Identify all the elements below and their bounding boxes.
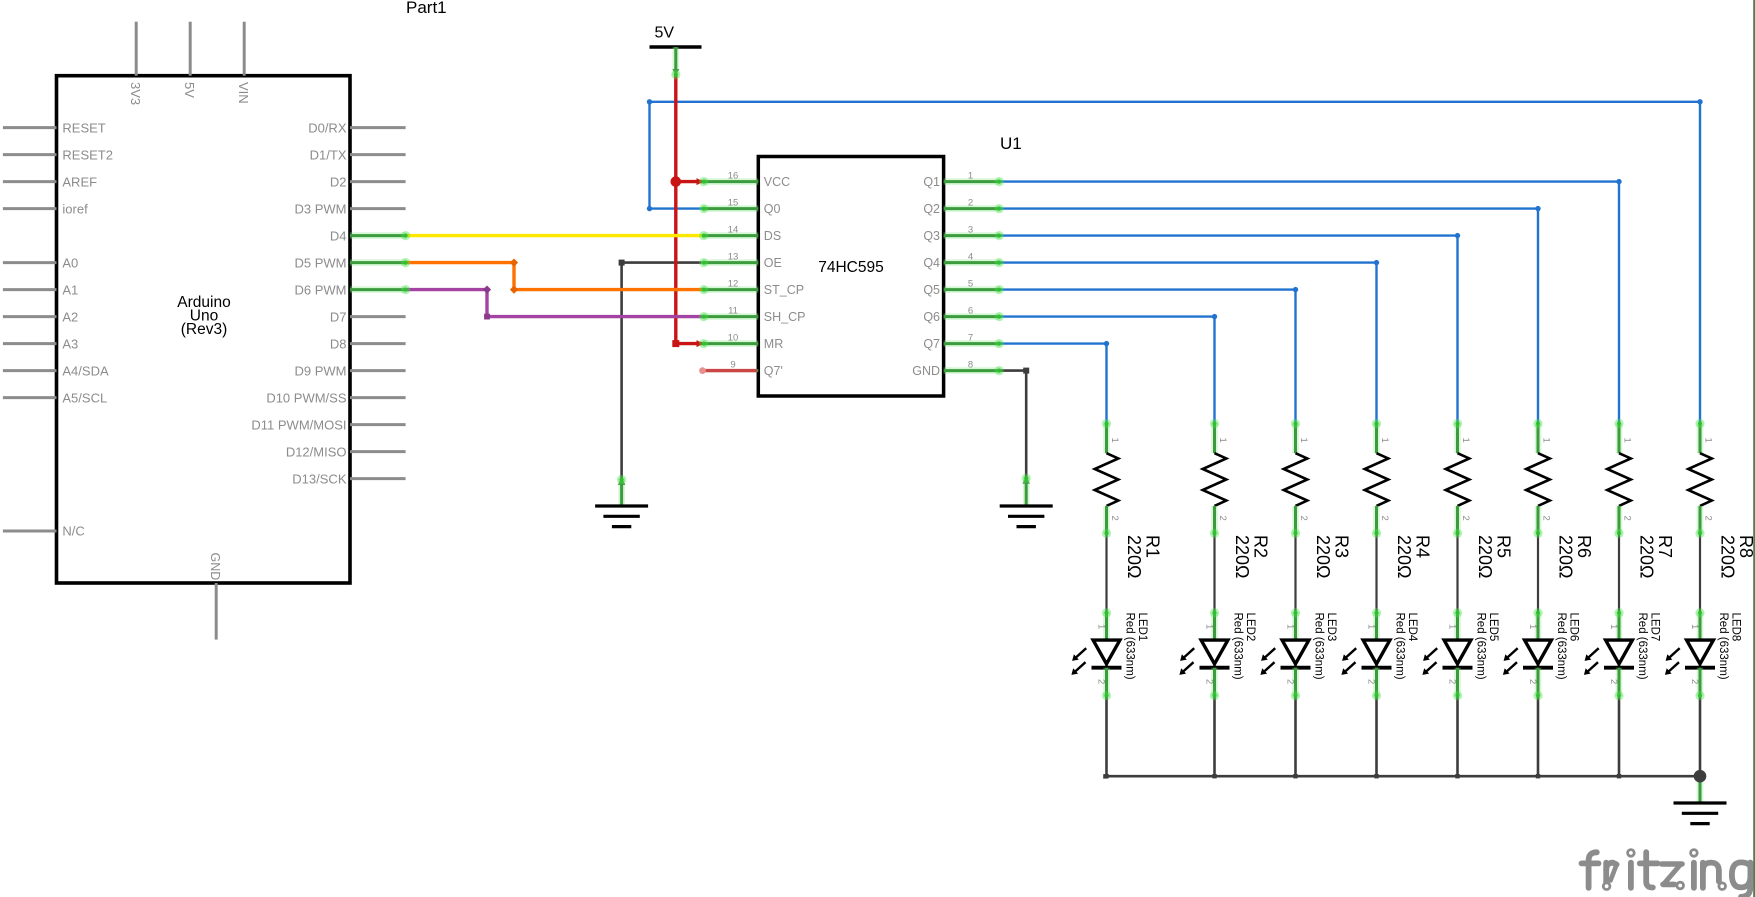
svg-text:R7: R7 (1655, 535, 1675, 558)
svg-text:A5/SCL: A5/SCL (62, 390, 107, 405)
svg-text:2: 2 (1379, 516, 1390, 521)
svg-text:Red (633nm): Red (633nm) (1123, 613, 1135, 680)
pin 10 MR (U1 left) (704, 333, 784, 351)
svg-text:5V: 5V (655, 25, 675, 42)
label U1 (1000, 134, 1022, 153)
svg-text:Red (633nm): Red (633nm) (1474, 613, 1486, 680)
svg-text:Q6: Q6 (923, 310, 940, 324)
wire to MR (red) (672, 340, 703, 347)
svg-text:10: 10 (728, 333, 739, 344)
wire LED8 to ground bus (black) (1699, 696, 1702, 777)
svg-text:1: 1 (1109, 438, 1120, 443)
svg-text:LED2: LED2 (1244, 613, 1256, 642)
svg-text:1: 1 (1366, 624, 1377, 629)
svg-text:A1: A1 (62, 282, 78, 297)
wire LED2 to ground bus (black) (1213, 696, 1216, 777)
svg-text:2: 2 (1608, 679, 1619, 684)
svg-text:D4: D4 (330, 228, 347, 243)
svg-text:2: 2 (1109, 516, 1120, 521)
pin A0 (Arduino) (3, 255, 78, 270)
svg-text:LED5: LED5 (1487, 613, 1499, 642)
wire LED5 to ground bus (black) (1456, 696, 1459, 777)
ground symbol bottom right (LED return) (1674, 776, 1727, 823)
svg-text:Q0: Q0 (764, 202, 781, 216)
resistor R1 220ohm (1095, 424, 1121, 534)
svg-text:2: 2 (1298, 516, 1309, 521)
svg-text:D0/RX: D0/RX (308, 120, 347, 135)
svg-text:Q7: Q7 (923, 337, 940, 351)
svg-text:D8: D8 (330, 336, 347, 351)
svg-text:2: 2 (1460, 516, 1471, 521)
pin 14 DS (U1 left) (704, 225, 781, 243)
pin 5V (Arduino top) (182, 22, 197, 99)
svg-text:220Ω: 220Ω (1124, 535, 1144, 579)
resistor R4 220ohm (1365, 424, 1391, 534)
junction node VCC (red dot) (671, 176, 682, 187)
svg-text:2: 2 (1366, 679, 1377, 684)
resistor R2 220ohm (1203, 424, 1229, 534)
svg-text:D7: D7 (330, 309, 347, 324)
svg-text:2: 2 (1703, 516, 1714, 521)
wire OE to ground (black) (619, 260, 702, 479)
op-amp/chip U1 74HC595 body (758, 157, 943, 397)
LED8 Red (633nm) (1665, 613, 1715, 696)
svg-text:LED8: LED8 (1729, 613, 1741, 642)
wire D5 to ST_CP (orange) (406, 258, 703, 293)
svg-text:VCC: VCC (764, 175, 790, 189)
value label R7 220&#937; (1637, 535, 1675, 579)
svg-text:2: 2 (1285, 679, 1296, 684)
wire Q3 to R5 (blue) (999, 233, 1460, 424)
svg-text:R4: R4 (1413, 535, 1433, 558)
junction node: bus to ground (black dot) (1694, 770, 1707, 783)
wire D4 to DS (yellow) (406, 234, 703, 237)
pin D6 PWM (Arduino) (295, 282, 406, 297)
svg-text:1: 1 (1204, 624, 1215, 629)
svg-text:1: 1 (1217, 438, 1228, 443)
svg-text:6: 6 (968, 306, 973, 317)
pin 3 Q3 (U1 right) (923, 225, 999, 243)
LED7 Red (633nm) (1584, 613, 1634, 696)
svg-text:220Ω: 220Ω (1394, 535, 1414, 579)
LED3 Red (633nm) (1260, 613, 1310, 696)
svg-text:Q7': Q7' (764, 364, 783, 378)
value label LED7 Red (633nm) (1636, 613, 1660, 680)
svg-text:D13/SCK: D13/SCK (292, 471, 347, 486)
svg-text:1: 1 (1527, 624, 1538, 629)
svg-text:1: 1 (1608, 624, 1619, 629)
svg-text:3: 3 (968, 225, 973, 236)
svg-text:Red (633nm): Red (633nm) (1231, 613, 1243, 680)
svg-text:D6 PWM: D6 PWM (295, 282, 347, 297)
wire D6 to SH_CP (purple) (406, 285, 703, 319)
wire LED1 to ground bus (black) (1105, 696, 1108, 777)
value label LED8 Red (633nm) (1717, 613, 1741, 680)
pin D11 PWM/MOSI (Arduino) (251, 417, 405, 432)
pin RESET (Arduino) (3, 120, 106, 135)
ground symbol under U1 GND (1000, 476, 1053, 527)
svg-text:15: 15 (728, 198, 739, 209)
wire R5 to LED5 (black) (1456, 533, 1458, 612)
svg-text:GND: GND (912, 364, 940, 378)
pin 13 OE (U1 left) (704, 252, 782, 270)
svg-text:Red (633nm): Red (633nm) (1393, 613, 1405, 680)
wire U1 GND to ground (black) (999, 368, 1029, 478)
pin D3 PWM (Arduino) (295, 201, 406, 216)
value label LED5 Red (633nm) (1474, 613, 1498, 680)
svg-text:5V: 5V (182, 82, 197, 98)
svg-text:2: 2 (1096, 679, 1107, 684)
pin N/C (Arduino) (3, 524, 85, 539)
svg-text:Red (633nm): Red (633nm) (1312, 613, 1324, 680)
pin A1 (Arduino) (3, 282, 78, 297)
svg-text:D3 PWM: D3 PWM (295, 201, 347, 216)
value label LED6 Red (633nm) (1555, 613, 1579, 680)
svg-text:D5 PWM: D5 PWM (295, 255, 347, 270)
resistor R6 220ohm (1526, 424, 1552, 534)
svg-text:D12/MISO: D12/MISO (286, 444, 347, 459)
wire Q1 to R7 (blue) (999, 179, 1621, 424)
ground symbol under OE wire (595, 477, 648, 527)
svg-text:OE: OE (764, 256, 782, 270)
svg-text:220Ω: 220Ω (1718, 535, 1738, 579)
canvas edge line (right) (1753, 0, 1755, 897)
svg-text:Red (633nm): Red (633nm) (1636, 613, 1648, 680)
svg-text:16: 16 (728, 171, 739, 182)
pin 8 GND (U1 right) (912, 360, 999, 378)
pin 6 Q6 (U1 right) (923, 306, 999, 324)
svg-text:Q3: Q3 (923, 229, 940, 243)
svg-text:Q5: Q5 (923, 283, 940, 297)
wire R4 to LED4 (black) (1375, 533, 1377, 612)
wire LED4 to ground bus (black) (1375, 696, 1378, 777)
wire 5V rail vertical (red) (674, 74, 677, 344)
pin D12/MISO (Arduino) (286, 444, 406, 459)
pin D5 PWM (Arduino) (295, 255, 406, 270)
pin 4 Q4 (U1 right) (923, 252, 999, 270)
svg-text:ST_CP: ST_CP (764, 283, 804, 297)
svg-text:R6: R6 (1574, 535, 1594, 558)
svg-text:R8: R8 (1736, 535, 1755, 558)
LED1 Red (633nm) (1071, 613, 1121, 696)
pin A2 (Arduino) (3, 309, 78, 324)
svg-text:2: 2 (1689, 679, 1700, 684)
svg-text:220Ω: 220Ω (1475, 535, 1495, 579)
svg-text:Q1: Q1 (923, 175, 940, 189)
svg-text:4: 4 (968, 252, 973, 263)
pin D8 (Arduino) (330, 336, 406, 351)
pin 9 Q7&#39; (U1 left) (704, 360, 783, 378)
wire 5V to VCC (red) (676, 178, 704, 185)
wire R2 to LED2 (black) (1213, 533, 1215, 612)
pin D13/SCK (Arduino) (292, 471, 405, 486)
pin 2 Q2 (U1 right) (923, 198, 999, 216)
svg-text:Q2: Q2 (923, 202, 940, 216)
pin A4/SDA (Arduino) (3, 363, 109, 378)
svg-text:R5: R5 (1494, 535, 1514, 558)
value label LED1 Red (633nm) (1123, 613, 1147, 680)
svg-text:DS: DS (764, 229, 781, 243)
svg-text:RESET: RESET (62, 120, 105, 135)
svg-text:1: 1 (1541, 438, 1552, 443)
value label LED2 Red (633nm) (1231, 613, 1255, 680)
svg-text:GND: GND (208, 553, 222, 581)
svg-text:220Ω: 220Ω (1232, 535, 1252, 579)
svg-text:13: 13 (728, 252, 739, 263)
wire Q0 to R8 (blue, top loop) (647, 99, 1703, 423)
svg-text:7: 7 (968, 333, 973, 344)
svg-text:1: 1 (968, 171, 973, 182)
value label R2 220&#937; (1232, 535, 1270, 579)
svg-text:LED6: LED6 (1567, 613, 1579, 642)
value label R6 220&#937; (1556, 535, 1594, 579)
connection endpoint markers (green glow) (401, 70, 1705, 700)
pin ioref (Arduino) (3, 201, 88, 216)
svg-text:VIN: VIN (236, 82, 251, 104)
svg-text:1: 1 (1622, 438, 1633, 443)
pin 1 Q1 (U1 right) (923, 171, 999, 189)
svg-text:2: 2 (968, 198, 973, 209)
wire R1 to LED1 (black) (1105, 533, 1107, 612)
svg-text:2: 2 (1622, 516, 1633, 521)
pin A3 (Arduino) (3, 336, 78, 351)
wire Q6 to R2 (blue) (999, 314, 1217, 424)
fritzing logo (1582, 852, 1751, 897)
wire stub Q7&#39; (red, unconnected) (699, 367, 757, 374)
svg-text:5: 5 (968, 279, 973, 290)
pin D0/RX (Arduino) (308, 120, 405, 135)
pin VIN (Arduino top) (236, 22, 251, 104)
pin 5 Q5 (U1 right) (923, 279, 999, 297)
svg-text:Red (633nm): Red (633nm) (1555, 613, 1567, 680)
pin RESET2 (Arduino) (3, 147, 113, 162)
svg-text:R3: R3 (1332, 535, 1352, 558)
svg-text:A3: A3 (62, 336, 78, 351)
pin D9 PWM (Arduino) (295, 363, 406, 378)
pin 7 Q7 (U1 right) (923, 333, 999, 351)
svg-text:3V3: 3V3 (128, 82, 143, 105)
value label R3 220&#937; (1313, 535, 1351, 579)
pin D10 PWM/SS (Arduino) (266, 390, 405, 405)
svg-text:1: 1 (1689, 624, 1700, 629)
svg-text:2: 2 (1541, 516, 1552, 521)
pin 12 ST_CP (U1 left) (704, 279, 804, 297)
svg-text:D2: D2 (330, 174, 347, 189)
wire LED6 to ground bus (black) (1537, 696, 1540, 777)
svg-text:8: 8 (968, 360, 973, 371)
pin 16 VCC (U1 left) (704, 171, 791, 189)
pin AREF (Arduino) (3, 174, 97, 189)
svg-text:Part1: Part1 (406, 0, 447, 17)
svg-text:Q4: Q4 (923, 256, 940, 270)
svg-text:(Rev3): (Rev3) (181, 321, 228, 338)
wire R6 to LED6 (black) (1537, 533, 1539, 612)
svg-text:SH_CP: SH_CP (764, 310, 806, 324)
svg-text:A2: A2 (62, 309, 78, 324)
pin A5/SCL (Arduino) (3, 390, 107, 405)
svg-text:D1/TX: D1/TX (310, 147, 347, 162)
pin D7 (Arduino) (330, 309, 406, 324)
LED5 Red (633nm) (1422, 613, 1472, 696)
svg-text:A4/SDA: A4/SDA (62, 363, 109, 378)
label Part1 (406, 0, 447, 17)
resistor R5 220ohm (1446, 424, 1472, 534)
svg-text:LED4: LED4 (1406, 613, 1418, 642)
pin 15 Q0 (U1 left) (704, 198, 781, 216)
svg-text:2: 2 (1217, 516, 1228, 521)
svg-text:11: 11 (728, 306, 738, 317)
svg-text:N/C: N/C (62, 524, 84, 539)
svg-text:LED7: LED7 (1648, 613, 1660, 642)
svg-text:220Ω: 220Ω (1313, 535, 1333, 579)
wire Q2 to R6 (blue) (999, 206, 1540, 424)
wire R3 to LED3 (black) (1294, 533, 1296, 612)
svg-text:2: 2 (1527, 679, 1538, 684)
wire Q7 to R1 (blue) (999, 341, 1109, 424)
svg-text:LED1: LED1 (1136, 613, 1148, 642)
svg-text:RESET2: RESET2 (62, 147, 113, 162)
svg-text:220Ω: 220Ω (1637, 535, 1657, 579)
value label R5 220&#937; (1475, 535, 1513, 579)
svg-text:LED3: LED3 (1325, 613, 1337, 642)
resistor R8 220ohm (1688, 424, 1714, 534)
svg-text:A0: A0 (62, 255, 78, 270)
wire LED7 to ground bus (black) (1618, 696, 1621, 777)
power symbol 5V (650, 25, 702, 76)
svg-text:220Ω: 220Ω (1556, 535, 1576, 579)
svg-text:1: 1 (1703, 438, 1714, 443)
part Part1 Arduino Uno (Rev3) body (57, 76, 351, 583)
svg-text:14: 14 (728, 225, 739, 236)
pin GND (Arduino bottom) (208, 553, 222, 640)
svg-text:1: 1 (1096, 624, 1107, 629)
resistor R7 220ohm (1607, 424, 1633, 534)
pin D4 (Arduino) (330, 228, 406, 243)
svg-text:1: 1 (1447, 624, 1458, 629)
svg-text:1: 1 (1298, 438, 1309, 443)
svg-text:1: 1 (1285, 624, 1296, 629)
value label LED3 Red (633nm) (1312, 613, 1336, 680)
wire Q5 to R3 (blue) (999, 287, 1298, 424)
wire R7 to LED7 (black) (1618, 533, 1620, 612)
svg-text:1: 1 (1379, 438, 1390, 443)
svg-text:D10 PWM/SS: D10 PWM/SS (266, 390, 347, 405)
wire Q4 to R4 (blue) (999, 260, 1379, 424)
pin 3V3 (Arduino top) (128, 22, 143, 105)
svg-text:1: 1 (1460, 438, 1471, 443)
ground bus wire (black) (1103, 774, 1700, 779)
resistor R3 220ohm (1284, 424, 1310, 534)
wire LED3 to ground bus (black) (1294, 696, 1297, 777)
svg-text:MR: MR (764, 337, 783, 351)
svg-text:ioref: ioref (62, 201, 88, 216)
svg-text:12: 12 (728, 279, 739, 290)
svg-text:74HC595: 74HC595 (818, 259, 884, 276)
pin D1/TX (Arduino) (310, 147, 406, 162)
value label LED4 Red (633nm) (1393, 613, 1417, 680)
svg-text:R2: R2 (1251, 535, 1271, 558)
LED6 Red (633nm) (1503, 613, 1553, 696)
svg-text:Red (633nm): Red (633nm) (1717, 613, 1729, 680)
wire R8 to LED8 (black) (1699, 533, 1701, 612)
pin D2 (Arduino) (330, 174, 406, 189)
value label R4 220&#937; (1394, 535, 1432, 579)
svg-text:U1: U1 (1000, 134, 1022, 153)
value label R1 220&#937; (1124, 535, 1162, 579)
svg-text:2: 2 (1447, 679, 1458, 684)
svg-text:AREF: AREF (62, 174, 97, 189)
LED2 Red (633nm) (1179, 613, 1229, 696)
svg-text:D9 PWM: D9 PWM (295, 363, 347, 378)
LED4 Red (633nm) (1341, 613, 1391, 696)
pin 11 SH_CP (U1 left) (704, 306, 806, 324)
svg-text:D11 PWM/MOSI: D11 PWM/MOSI (251, 417, 346, 432)
svg-text:2: 2 (1204, 679, 1215, 684)
value label R8 220&#937; (1718, 535, 1755, 579)
svg-text:R1: R1 (1143, 535, 1163, 558)
